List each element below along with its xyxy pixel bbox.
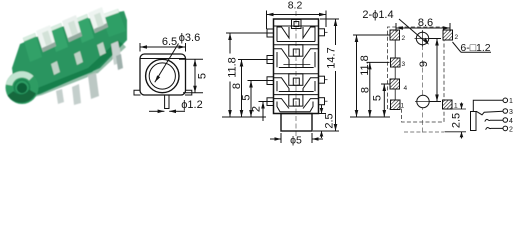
photo tower edge highlights xyxy=(23,33,36,42)
svg-text:8.2: 8.2 xyxy=(288,0,303,12)
label 8 fp xyxy=(360,87,372,93)
footprint bottom line xyxy=(404,131,444,133)
contact S2 xyxy=(274,49,289,68)
side barrel xyxy=(281,114,312,132)
wire 4 xyxy=(485,119,503,121)
photo tower 2 xyxy=(49,23,68,52)
label 5 fp xyxy=(372,95,384,101)
label 2.5 side xyxy=(324,113,336,128)
photo tower 3 xyxy=(75,14,94,43)
front body lid line xyxy=(141,58,186,60)
photo barrel bottom shadow xyxy=(8,90,37,103)
dim 2.5 side xyxy=(316,113,326,115)
photo barrel groove xyxy=(14,80,29,95)
pad L1 xyxy=(390,30,400,40)
dim 8 fp xyxy=(367,61,390,63)
pad R1 xyxy=(443,30,453,40)
wire 1 xyxy=(473,100,503,111)
dim 2 side xyxy=(259,101,275,103)
dim 6.5 xyxy=(139,43,141,52)
svg-text:1: 1 xyxy=(454,103,458,110)
pad column connector lines xyxy=(394,40,396,100)
svg-text:ϕ1.2: ϕ1.2 xyxy=(181,99,202,111)
dim phi1.2 xyxy=(149,110,164,112)
label 5 side xyxy=(241,94,253,100)
photo clip center tabs xyxy=(42,31,52,46)
svg-text:2: 2 xyxy=(509,126,513,133)
hole bottom xyxy=(417,95,429,107)
dim phi3.6 leader xyxy=(155,44,179,83)
side contacts sections xyxy=(267,20,328,112)
dim 5 fp xyxy=(381,83,390,85)
svg-text:11.8: 11.8 xyxy=(359,55,371,76)
svg-text:11.8: 11.8 xyxy=(226,57,238,78)
label 11.8 fp xyxy=(359,55,371,76)
side left pins xyxy=(267,29,274,37)
dim 11.8 fp xyxy=(353,34,390,36)
footprint centerline xyxy=(422,30,424,135)
wire 3 xyxy=(476,111,503,115)
photo barrel ring outer xyxy=(6,71,39,104)
label 8 side xyxy=(231,83,243,89)
front left flange xyxy=(134,90,141,95)
svg-text:1: 1 xyxy=(509,98,513,105)
label 5 front xyxy=(197,73,209,79)
side centerline xyxy=(295,11,297,137)
svg-text:1: 1 xyxy=(401,103,405,110)
photo barrel highlight xyxy=(6,71,34,86)
svg-text:2.5: 2.5 xyxy=(451,113,463,128)
svg-text:3: 3 xyxy=(509,109,513,116)
photo barrel hole xyxy=(17,83,27,93)
side right pins xyxy=(319,29,325,36)
photo clip pocket 3 xyxy=(88,7,108,33)
svg-text:8: 8 xyxy=(360,87,372,93)
photo tower 4 end cap xyxy=(101,9,126,37)
label 11.8 side xyxy=(226,54,239,82)
photo clip pocket shadows xyxy=(42,42,56,52)
front outer circle xyxy=(146,59,179,92)
side dims baseline xyxy=(222,116,266,118)
pad L2 xyxy=(391,58,401,67)
photo side contact marks xyxy=(51,61,60,75)
svg-text:9: 9 xyxy=(418,61,430,67)
wire 2 xyxy=(486,127,503,129)
svg-text:2: 2 xyxy=(402,35,406,42)
svg-text:5: 5 xyxy=(372,95,384,101)
pad L4 xyxy=(391,100,401,110)
svg-text:6-□1.2: 6-□1.2 xyxy=(460,42,490,54)
front right flange xyxy=(185,90,192,95)
svg-text:8: 8 xyxy=(231,83,243,89)
photo bottom legs xyxy=(88,73,99,99)
svg-text:ϕ3.6: ϕ3.6 xyxy=(179,32,200,44)
pad L3 xyxy=(390,79,400,89)
terminal circles xyxy=(503,98,508,103)
dim 5 side xyxy=(248,80,275,82)
photo clip pocket 1 xyxy=(36,25,56,52)
contact S4 xyxy=(274,99,318,112)
photo barrel inner xyxy=(12,78,32,98)
photo bottom dark band xyxy=(16,42,126,101)
hole top xyxy=(416,32,428,44)
photo body base xyxy=(12,11,127,100)
sleeve bar xyxy=(471,112,477,131)
svg-text:4: 4 xyxy=(404,85,408,92)
svg-text:2.5: 2.5 xyxy=(324,113,336,128)
svg-text:5: 5 xyxy=(241,94,253,100)
leader 2-phi1.4 xyxy=(399,19,428,44)
label 2.5 fp xyxy=(451,113,463,128)
label 2 side xyxy=(251,106,263,112)
svg-text:2: 2 xyxy=(455,34,459,41)
front pin xyxy=(165,95,169,109)
svg-text:4: 4 xyxy=(509,118,513,125)
svg-text:ϕ5: ϕ5 xyxy=(290,135,302,147)
svg-text:14.7: 14.7 xyxy=(326,47,338,68)
dim 8.2 xyxy=(266,11,268,30)
fp dims baseline xyxy=(350,116,390,118)
leader 6-1.2 xyxy=(453,42,462,52)
label 9 xyxy=(418,61,430,67)
dim 11.8 side xyxy=(226,32,274,34)
dim 8.6 xyxy=(395,23,397,32)
dim 14.7 xyxy=(320,18,339,20)
contact S1 xyxy=(277,27,289,42)
footprint outline dashed xyxy=(388,27,445,122)
dim 2.5 fp xyxy=(445,108,467,110)
side body xyxy=(274,19,319,114)
dim 9 xyxy=(429,38,441,40)
svg-text:5: 5 xyxy=(197,73,209,79)
photo right pins xyxy=(111,41,122,65)
svg-text:8.6: 8.6 xyxy=(418,17,433,29)
photo tower 1 xyxy=(23,33,42,62)
dim phi5 xyxy=(280,133,282,143)
svg-text:6.5: 6.5 xyxy=(162,36,177,48)
svg-text:3: 3 xyxy=(402,61,406,68)
dim 8 side xyxy=(238,59,274,61)
svg-text:2-ϕ1.4: 2-ϕ1.4 xyxy=(362,9,393,21)
pad R2 xyxy=(443,100,453,109)
photo clip pocket 2 xyxy=(62,15,82,42)
front inner circle xyxy=(149,63,175,89)
label 14.7 xyxy=(325,45,338,71)
dim 5 right xyxy=(179,58,203,60)
svg-text:2: 2 xyxy=(251,106,263,112)
front body xyxy=(140,54,186,95)
side section lines xyxy=(274,44,319,46)
contact S3 xyxy=(274,78,289,92)
